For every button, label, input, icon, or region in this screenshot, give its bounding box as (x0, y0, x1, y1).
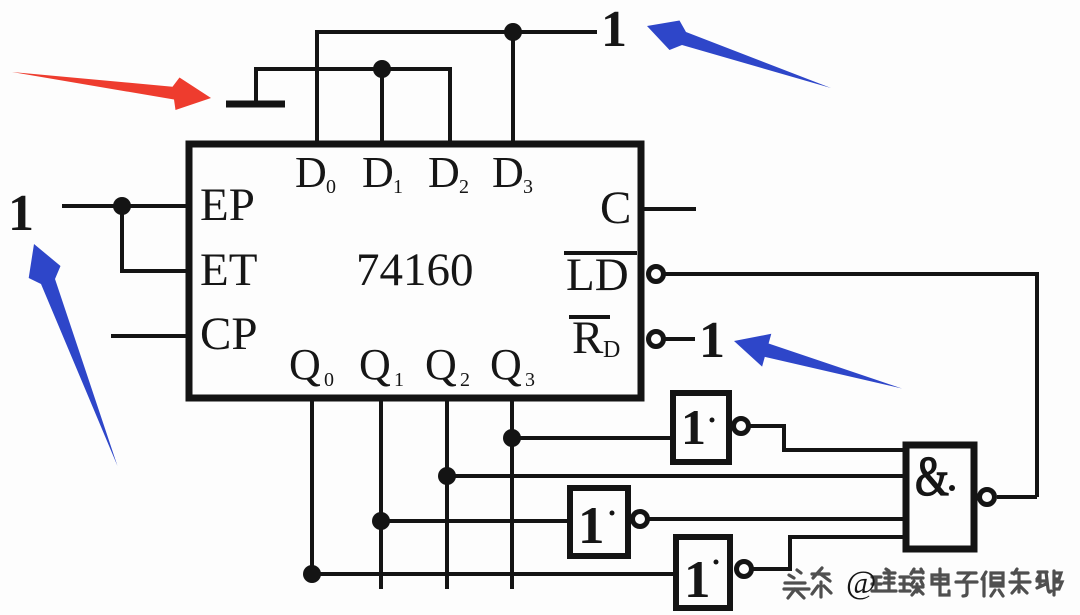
wire second net (D1,D2) to ground bar (256, 69, 450, 144)
wire Q0 to inverter G3 (312, 572, 676, 576)
node junction second wire / D1 (373, 60, 391, 78)
annotation blue arrow left (29, 244, 118, 466)
svg-text:3: 3 (523, 176, 533, 198)
pin label D3 (492, 148, 533, 198)
pin label D1 (362, 148, 403, 198)
ground bar (logic 0) (226, 101, 285, 108)
wire EP input (62, 204, 189, 208)
node junction top wire / D3 (504, 23, 522, 41)
wire LD feedback (to NAND output) (665, 274, 1037, 497)
svg-text:D: D (492, 148, 524, 197)
svg-text:EP: EP (200, 179, 255, 231)
inverter G2 (Q1) (570, 488, 648, 556)
wire Q0 vertical (310, 398, 314, 574)
svg-text:CP: CP (200, 308, 258, 360)
node junction Q1 (372, 512, 390, 530)
pin label Q1 (359, 340, 404, 391)
svg-text:1: 1 (601, 1, 627, 58)
inverter G3 (Q0) (676, 537, 752, 609)
svg-text:3: 3 (525, 369, 535, 391)
svg-text:1: 1 (393, 176, 403, 198)
wire Q1 vertical (379, 398, 383, 589)
svg-text:Q: Q (359, 340, 391, 389)
wire D1 vertical (380, 69, 384, 144)
wire CP input (111, 334, 189, 338)
svg-text:2: 2 (460, 369, 470, 391)
svg-text:LD: LD (566, 249, 629, 301)
svg-text:Q: Q (490, 340, 522, 389)
svg-text:D: D (428, 148, 460, 197)
wire Q1 to inverter G2 (381, 519, 569, 523)
svg-text:D: D (295, 148, 327, 197)
wire G2 output to NAND (649, 517, 906, 521)
svg-text:0: 0 (326, 176, 336, 198)
pin label D0 (295, 148, 336, 198)
pin bubble RD (649, 332, 664, 347)
pin label D2 (428, 148, 469, 198)
wire Q2 vertical (445, 398, 449, 589)
wire Q2 to NAND input (447, 474, 906, 478)
IC U1 74160 body (189, 144, 641, 398)
wire C output (641, 207, 696, 211)
svg-text:1: 1 (394, 369, 404, 391)
svg-text:@: @ (846, 565, 876, 601)
NAND gate U2 (906, 445, 995, 549)
svg-text:1: 1 (684, 551, 711, 609)
node junction Q2 (438, 467, 456, 485)
pin bubble LD (649, 267, 664, 282)
pin label Q3 (490, 340, 535, 391)
wire top net to logic 1 (D0,D3) (317, 32, 597, 144)
svg-text:1: 1 (8, 185, 34, 242)
wire D3 vertical (511, 32, 515, 144)
pin label Q0 (289, 340, 334, 391)
pin label LD (active low) (564, 249, 637, 301)
annotation blue arrow top right (647, 21, 831, 89)
inverter G1 (Q3) (673, 393, 749, 462)
annotation blue arrow middle right (734, 334, 902, 389)
svg-text:Q: Q (425, 340, 457, 389)
wire NAND output (997, 495, 1037, 499)
svg-text:1: 1 (699, 312, 725, 369)
wire RD input (665, 337, 695, 341)
wire G3 output to NAND (753, 537, 906, 569)
svg-text:Q: Q (289, 340, 321, 389)
svg-text:ET: ET (200, 244, 257, 296)
pin label Q2 (425, 340, 470, 391)
svg-text:R: R (572, 312, 604, 364)
wire Q3 to inverter G1 (512, 436, 673, 440)
svg-text:74160: 74160 (356, 244, 474, 296)
node junction Q0 (303, 565, 321, 583)
svg-text:D: D (362, 148, 394, 197)
svg-text:&: & (915, 446, 949, 508)
wire G1 output to NAND (750, 426, 906, 450)
svg-text:D: D (603, 337, 620, 363)
node junction EP/ET (113, 197, 131, 215)
svg-text:1: 1 (681, 399, 706, 455)
watermark 头条 @璀璨电子俱乐部 (784, 568, 1062, 598)
svg-text:C: C (600, 182, 631, 234)
wire Q3 vertical (510, 398, 514, 589)
svg-text:1: 1 (578, 497, 605, 555)
node junction Q3 (503, 429, 521, 447)
svg-text:0: 0 (324, 369, 334, 391)
pin label RD (active low) (569, 312, 620, 364)
annotation red arrow (points to ground bar) (12, 72, 211, 110)
svg-text:2: 2 (459, 176, 469, 198)
wire EP-ET tie (122, 206, 189, 271)
